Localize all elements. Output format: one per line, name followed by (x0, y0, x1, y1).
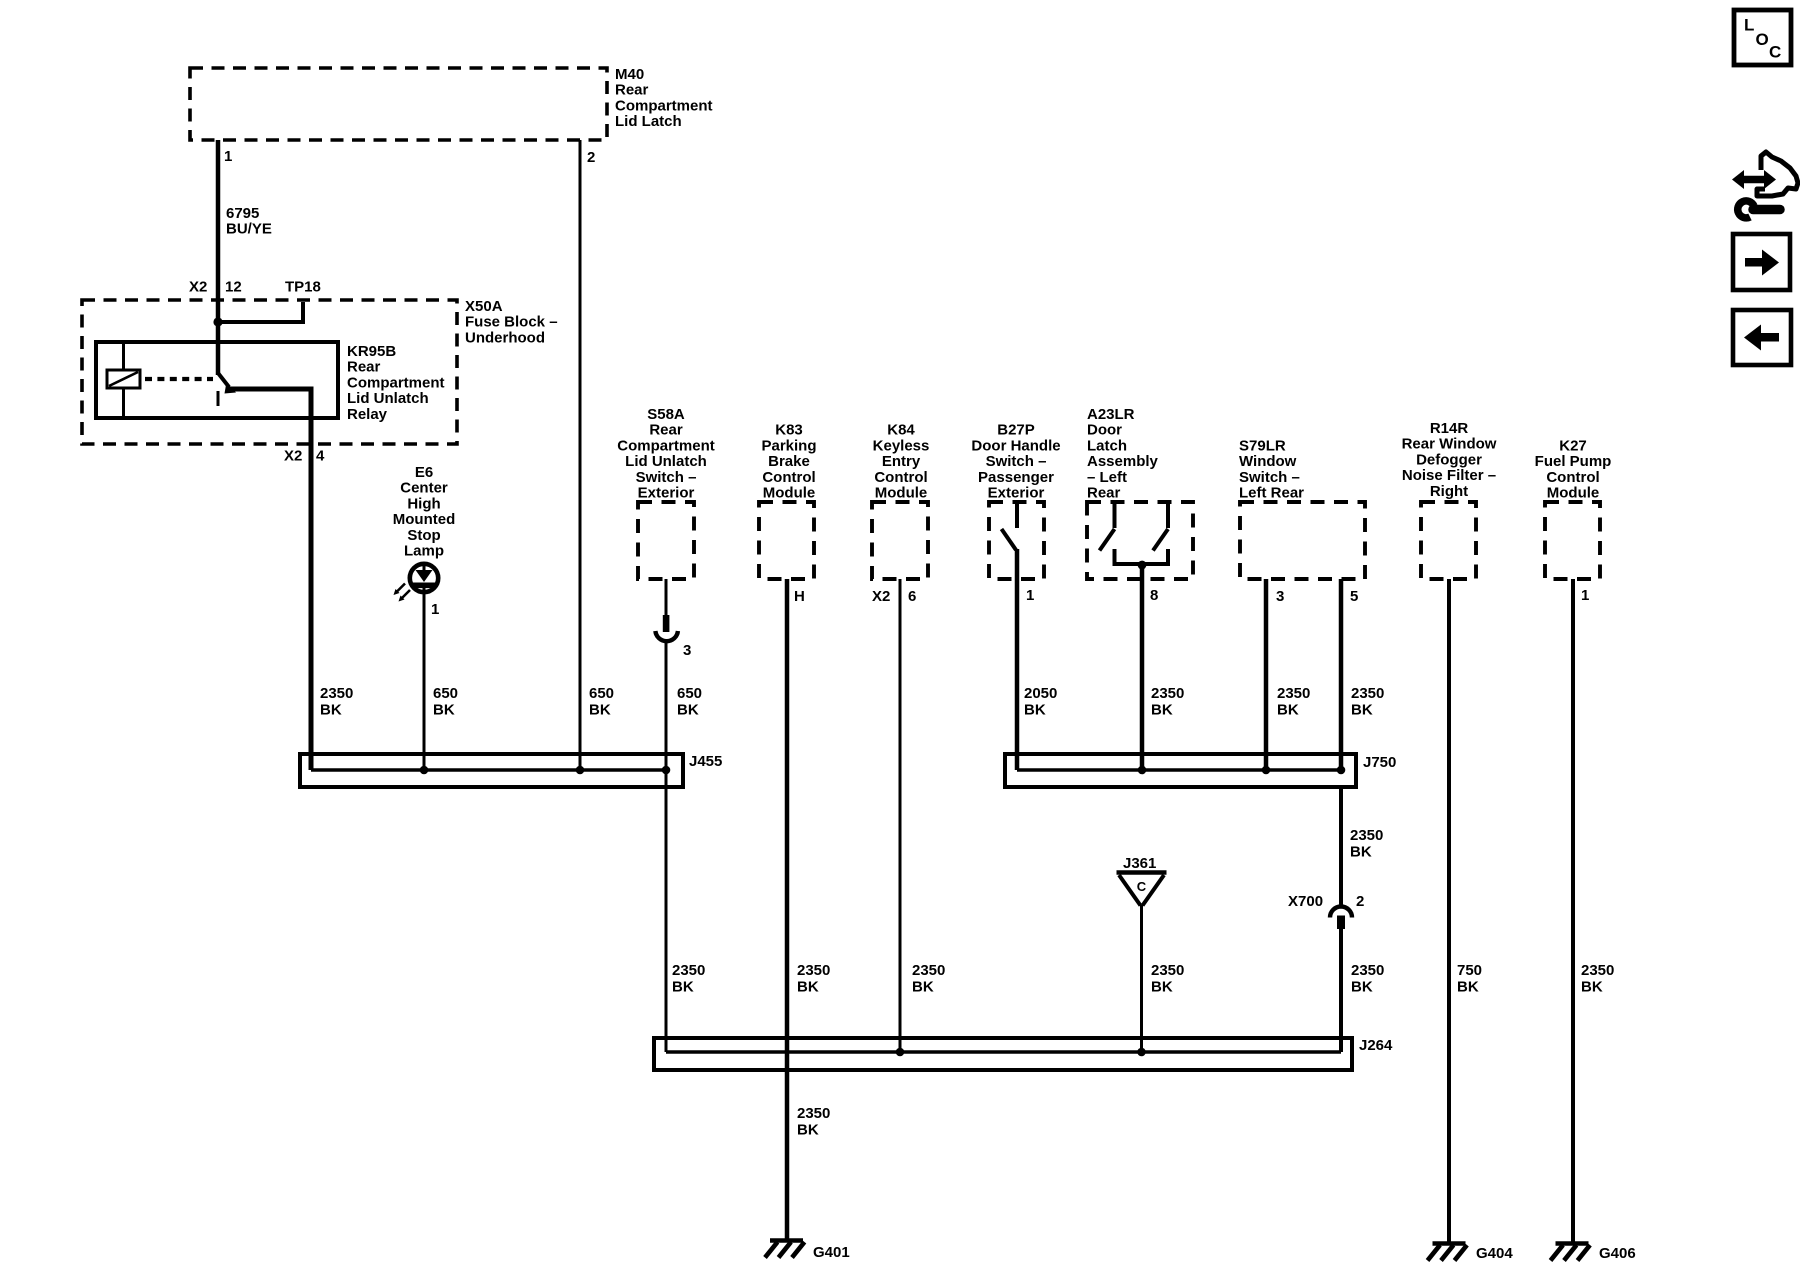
svg-text:BK: BK (912, 979, 934, 996)
svg-text:Module: Module (763, 485, 816, 502)
svg-text:Relay: Relay (347, 406, 388, 423)
svg-text:J455: J455 (689, 753, 722, 770)
splice pack J750 bus bar (1005, 754, 1356, 787)
svg-text:C: C (1769, 43, 1781, 62)
svg-text:6: 6 (908, 588, 916, 605)
left switch of A23LR (1113, 503, 1117, 528)
svg-text:2350: 2350 (912, 962, 945, 979)
svg-text:Parking: Parking (761, 437, 816, 454)
label B27P Door Handle Switch - Passenger Exterior (971, 422, 1060, 502)
connector X50A Fuse Block - Underhood (dashed box) (82, 300, 457, 444)
svg-text:BK: BK (1024, 702, 1046, 719)
svg-text:Exterior: Exterior (638, 485, 695, 502)
label K84 Keyless Entry Control Module (873, 422, 930, 502)
wire J361 to J264 (1140, 905, 1143, 1052)
wire K84 to J264 (899, 579, 902, 1052)
svg-text:2: 2 (587, 149, 595, 166)
svg-text:Switch –: Switch – (986, 453, 1047, 470)
label wire 650 BK (S58A) (677, 685, 702, 719)
svg-text:2350: 2350 (1277, 685, 1310, 702)
label wire 650 BK (E6) (433, 685, 458, 719)
icon forward arrow button (1733, 234, 1790, 290)
wire K83 through J264 to ground G401 (785, 579, 790, 1240)
svg-text:BK: BK (1351, 979, 1373, 996)
wire B27P to J750 (1015, 549, 1020, 770)
label wire 2350 BK (J361) (1151, 962, 1184, 996)
node junction dot inside A23LR (1138, 561, 1147, 570)
label M40 (615, 66, 713, 130)
label wire 2350 BK (J264 to G401) (797, 1105, 830, 1139)
wire E6 to J455 (423, 588, 426, 770)
svg-text:G406: G406 (1599, 1245, 1636, 1262)
svg-text:Rear: Rear (649, 422, 683, 439)
svg-text:A23LR: A23LR (1087, 406, 1135, 423)
node dot M40 pin2 at J455 (576, 766, 585, 775)
ground G406 symbol (1551, 1244, 1591, 1261)
wire M40 pin2 down to J455 (579, 140, 582, 770)
svg-text:X50A: X50A (465, 298, 503, 315)
svg-text:Lid Latch: Lid Latch (615, 113, 682, 130)
svg-text:Rear Window: Rear Window (1402, 436, 1497, 453)
lamp E6 LED symbol (410, 564, 438, 592)
svg-text:M40: M40 (615, 66, 644, 83)
svg-text:G401: G401 (813, 1244, 850, 1261)
wire R14R to ground G404 (1447, 579, 1451, 1243)
wire coil lead upper (122, 342, 125, 370)
svg-text:Control: Control (874, 469, 927, 486)
svg-text:C: C (1137, 879, 1147, 894)
svg-text:4: 4 (316, 448, 325, 465)
wire relay output to J455 (231, 389, 311, 770)
svg-text:G404: G404 (1476, 1245, 1513, 1262)
ground G401 symbol (765, 1241, 805, 1258)
label wire 2350 BK (S79LR pin3) (1277, 685, 1310, 719)
node dot E6 at J455 (420, 766, 429, 775)
svg-text:Window: Window (1239, 453, 1297, 470)
svg-text:K84: K84 (887, 422, 915, 439)
svg-text:Defogger: Defogger (1416, 451, 1482, 468)
svg-text:R14R: R14R (1430, 420, 1469, 437)
switch symbol inside B27P (1015, 503, 1019, 528)
wire X700 to J264 (1339, 929, 1343, 1052)
svg-text:H: H (794, 588, 805, 605)
svg-text:Rear: Rear (347, 359, 381, 376)
svg-text:Keyless: Keyless (873, 437, 930, 454)
svg-text:1: 1 (431, 601, 439, 618)
svg-text:2350: 2350 (1350, 827, 1383, 844)
icon vehicle compare with wrench (1732, 152, 1798, 218)
svg-text:E6: E6 (415, 464, 433, 481)
wire branch to TP18 (220, 302, 303, 322)
wire M40 pin1 to relay switch (6795 BU/YE) (216, 140, 221, 375)
svg-text:L: L (1744, 16, 1754, 35)
svg-text:– Left: – Left (1087, 469, 1127, 486)
label K27 Fuel Pump Control Module (1535, 437, 1612, 501)
svg-text:J750: J750 (1363, 754, 1396, 771)
svg-text:K27: K27 (1559, 437, 1587, 454)
label wire 2350 BK (S79LR pin5) (1351, 685, 1384, 719)
wire K27 to ground G406 (1571, 579, 1575, 1243)
svg-text:2350: 2350 (797, 1105, 830, 1122)
svg-text:Switch –: Switch – (1239, 469, 1300, 486)
svg-text:6795: 6795 (226, 205, 259, 222)
svg-text:S79LR: S79LR (1239, 437, 1286, 454)
svg-text:2: 2 (1356, 893, 1364, 910)
svg-text:Control: Control (762, 469, 815, 486)
svg-text:X2: X2 (872, 588, 890, 605)
svg-text:BU/YE: BU/YE (226, 221, 272, 238)
svg-text:Compartment: Compartment (615, 97, 713, 114)
label wire 2350 BK (relay output) (320, 685, 353, 719)
label X50A Fuse Block - Underhood (465, 298, 558, 346)
svg-text:Control: Control (1546, 469, 1599, 486)
svg-text:Mounted: Mounted (393, 511, 455, 528)
wire coil lead lower (122, 388, 125, 418)
relay fixed contact stub (217, 391, 220, 406)
svg-text:Passenger: Passenger (978, 469, 1054, 486)
svg-text:X700: X700 (1288, 893, 1323, 910)
wire S79LR pin5 to J750 (1339, 579, 1344, 770)
svg-text:TP18: TP18 (285, 279, 321, 296)
svg-text:2350: 2350 (1351, 685, 1384, 702)
svg-text:650: 650 (589, 685, 614, 702)
svg-text:BK: BK (1350, 844, 1372, 861)
svg-text:Brake: Brake (768, 453, 810, 470)
wire S79LR pin3 to J750 (1264, 579, 1269, 770)
wire A23LR to J750 (1140, 565, 1145, 770)
svg-text:Right: Right (1430, 483, 1468, 500)
relay KR95B outline box (96, 342, 338, 418)
connector M40 Rear Compartment Lid Latch (dashed box) (190, 68, 607, 140)
label R14R Rear Window Defogger Noise Filter - Right (1402, 420, 1497, 500)
connector K84 dashed box (872, 502, 928, 579)
connector B27P dashed box (989, 502, 1044, 579)
node dot S79LR pin3 at J750 (1262, 766, 1271, 775)
inline connector X700 (cup and blade) (1330, 907, 1352, 918)
svg-text:Entry: Entry (882, 453, 921, 470)
svg-text:8: 8 (1150, 587, 1158, 604)
svg-text:650: 650 (677, 685, 702, 702)
svg-text:BK: BK (1277, 702, 1299, 719)
node dot S79LR pin5 at J750 (1337, 766, 1346, 775)
svg-text:750: 750 (1457, 962, 1482, 979)
svg-text:J264: J264 (1359, 1037, 1393, 1054)
svg-text:Door: Door (1087, 422, 1122, 439)
svg-text:BK: BK (797, 1122, 819, 1139)
svg-text:2350: 2350 (672, 962, 705, 979)
svg-text:J361: J361 (1123, 855, 1156, 872)
splice J361 triangle symbol (1117, 870, 1167, 875)
icon back arrow button (1733, 310, 1791, 365)
icon LOC button (1734, 10, 1791, 65)
LED light arrows (401, 590, 410, 599)
node dot A23LR at J750 (1138, 766, 1147, 775)
svg-text:BK: BK (677, 702, 699, 719)
svg-text:2350: 2350 (1151, 962, 1184, 979)
label wire 2350 BK (J750 to X700) (1350, 827, 1383, 861)
splice pack J264 bus bar (654, 1038, 1352, 1070)
svg-text:High: High (407, 495, 440, 512)
svg-text:5: 5 (1350, 588, 1358, 605)
svg-text:2350: 2350 (1581, 962, 1614, 979)
connector A23LR dashed box (1087, 502, 1193, 579)
svg-text:Compartment: Compartment (617, 437, 715, 454)
svg-text:Compartment: Compartment (347, 374, 445, 391)
label A23LR Door Latch Assembly - Left Rear (1087, 406, 1159, 502)
dashed actuation link coil to switch (145, 377, 213, 381)
svg-text:X2: X2 (189, 279, 207, 296)
svg-text:K83: K83 (775, 422, 803, 439)
svg-text:BK: BK (320, 702, 342, 719)
svg-text:Rear: Rear (615, 82, 649, 99)
svg-text:S58A: S58A (647, 406, 685, 423)
wire S58A terminal down through J455 to J264 (665, 641, 668, 1052)
svg-text:Stop: Stop (407, 527, 440, 544)
label wire 2350 BK (S58A to J264) (672, 962, 705, 996)
svg-text:3: 3 (683, 642, 691, 659)
splice pack J455 bus bar (300, 754, 683, 787)
svg-text:BK: BK (1351, 702, 1373, 719)
svg-text:Fuel Pump: Fuel Pump (1535, 453, 1612, 470)
svg-text:BK: BK (672, 979, 694, 996)
right switch of A23LR (1166, 503, 1170, 528)
label KR95B Rear Compartment Lid Unlatch Relay (347, 343, 445, 423)
svg-text:2350: 2350 (320, 685, 353, 702)
svg-text:2350: 2350 (1151, 685, 1184, 702)
svg-text:Lamp: Lamp (404, 543, 444, 560)
svg-text:Underhood: Underhood (465, 329, 545, 346)
label K83 Parking Brake Control Module (761, 422, 816, 502)
svg-text:Module: Module (1547, 485, 1600, 502)
label wire 2350 BK (X700 to J264) (1351, 962, 1384, 996)
connector S58A dashed box (638, 502, 694, 579)
svg-text:1: 1 (224, 148, 232, 165)
label wire 6795 BU/YE (226, 205, 272, 238)
label wire 2350 BK (K83) (797, 962, 830, 996)
label wire 2350 BK (K84) (912, 962, 945, 996)
wire J750 to X700 (1339, 787, 1343, 906)
connector K27 dashed box (1545, 502, 1600, 579)
svg-text:BK: BK (1151, 979, 1173, 996)
node junction dot at X2-12 branch (213, 317, 222, 326)
wire S58A to inline terminal (665, 579, 668, 615)
node dot K84 at J264 (896, 1048, 905, 1057)
svg-text:BK: BK (589, 702, 611, 719)
svg-text:BK: BK (1457, 979, 1479, 996)
svg-text:O: O (1756, 30, 1769, 49)
label S79LR Window Switch - Left Rear (1239, 437, 1304, 501)
svg-text:Latch: Latch (1087, 437, 1127, 454)
svg-text:Left Rear: Left Rear (1239, 485, 1304, 502)
svg-text:B27P: B27P (997, 422, 1035, 439)
node dot J361 at J264 (1137, 1048, 1146, 1057)
svg-text:X2: X2 (284, 448, 302, 465)
svg-text:Module: Module (875, 485, 928, 502)
inline connector terminal below S58A (blade and cup) (663, 615, 670, 632)
svg-text:Assembly: Assembly (1087, 453, 1159, 470)
node dot S58A at J455 (662, 766, 671, 775)
label wire 2050 BK (B27P) (1024, 685, 1057, 719)
svg-text:BK: BK (433, 702, 455, 719)
svg-text:Noise Filter –: Noise Filter – (1402, 467, 1496, 484)
svg-text:Fuse Block –: Fuse Block – (465, 314, 558, 331)
svg-text:12: 12 (225, 279, 242, 296)
svg-text:1: 1 (1581, 587, 1589, 604)
svg-text:Lid Unlatch: Lid Unlatch (625, 453, 707, 470)
svg-text:1: 1 (1026, 587, 1034, 604)
svg-text:Door Handle: Door Handle (971, 437, 1060, 454)
svg-text:BK: BK (797, 979, 819, 996)
label wire 2350 BK (K27) (1581, 962, 1614, 996)
svg-text:Lid Unlatch: Lid Unlatch (347, 390, 429, 407)
label S58A Rear Compartment Lid Unlatch Switch - Exterior (617, 406, 715, 502)
connector K83 dashed box (759, 502, 814, 579)
svg-text:650: 650 (433, 685, 458, 702)
lamp E6 Center High Mounted Stop Lamp label (393, 464, 455, 560)
svg-text:2350: 2350 (797, 962, 830, 979)
connector R14R dashed box (1421, 502, 1476, 579)
relay coil (107, 370, 140, 388)
relay switch blade with arrowhead (218, 373, 229, 387)
svg-text:Rear: Rear (1087, 485, 1121, 502)
connector S79LR dashed box (1240, 502, 1365, 579)
svg-text:BK: BK (1581, 979, 1603, 996)
svg-text:3: 3 (1276, 588, 1284, 605)
svg-text:BK: BK (1151, 702, 1173, 719)
label wire 750 BK (R14R) (1457, 962, 1482, 996)
svg-text:Exterior: Exterior (988, 485, 1045, 502)
svg-text:2350: 2350 (1351, 962, 1384, 979)
svg-text:Switch –: Switch – (636, 469, 697, 486)
svg-text:KR95B: KR95B (347, 343, 396, 360)
label wire 2350 BK (A23LR) (1151, 685, 1184, 719)
label wire 650 BK (M40 pin2) (589, 685, 614, 719)
svg-text:2050: 2050 (1024, 685, 1057, 702)
ground G404 symbol (1428, 1244, 1468, 1261)
svg-text:Center: Center (400, 480, 448, 497)
